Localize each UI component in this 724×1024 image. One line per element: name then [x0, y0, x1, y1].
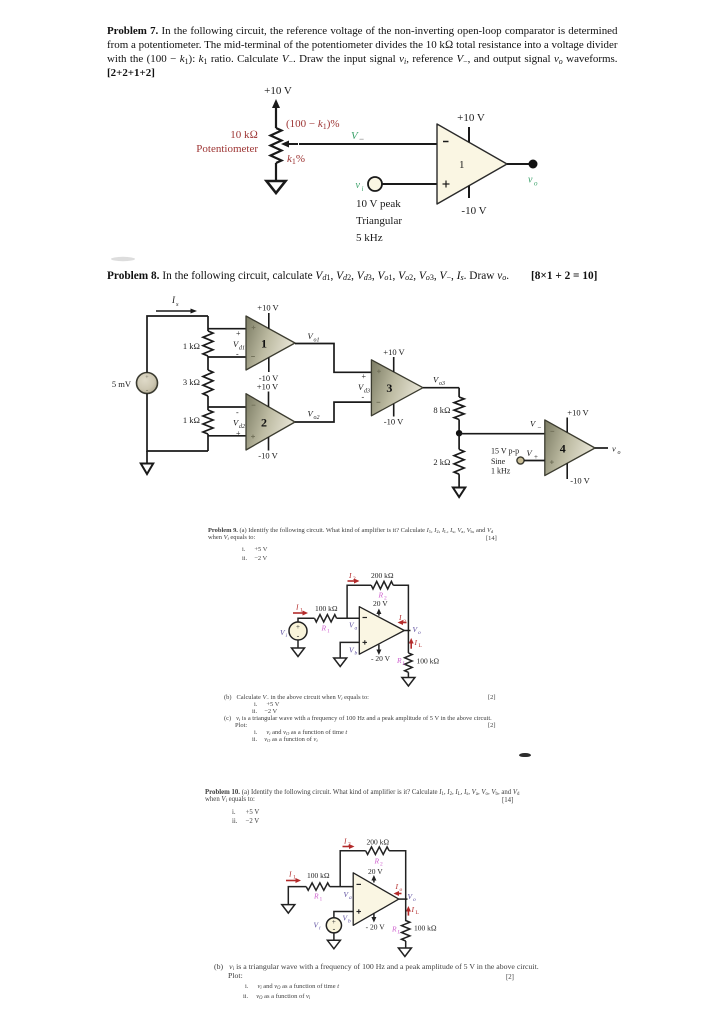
- svg-text:s: s: [176, 301, 179, 308]
- label Vi (p10): [314, 921, 322, 932]
- label RL (p10): [391, 925, 401, 936]
- svg-text:v: v: [612, 444, 616, 454]
- label RL (p9): [396, 656, 406, 667]
- svg-text:b: b: [348, 919, 351, 925]
- ground (potentiometer): [267, 181, 286, 193]
- label I1 (p10): [288, 870, 296, 881]
- U4 +10V pin: [566, 418, 568, 433]
- label Io (p9): [398, 613, 406, 624]
- U3 +10V pin: [393, 357, 395, 372]
- svg-text:L: L: [402, 661, 406, 667]
- label Va (p10): [344, 890, 353, 901]
- label Vo2: [308, 409, 320, 422]
- output terminal dot: [529, 160, 538, 169]
- svg-text:1: 1: [300, 608, 303, 614]
- op-amp input signs (p9): [363, 618, 368, 645]
- U3 outside + sign: [362, 372, 367, 381]
- svg-text:20 V: 20 V: [368, 867, 383, 876]
- svg-text:R: R: [391, 925, 397, 934]
- op-amp U2: [246, 394, 295, 450]
- wire +10V supply to potentiometer top: [272, 99, 280, 128]
- U4 +10 V label: [567, 408, 589, 418]
- problem 10 statement text (low-res scan): [205, 789, 525, 803]
- svg-text:+10 V: +10 V: [257, 303, 279, 313]
- svg-text:I: I: [288, 870, 292, 879]
- U2 outside - sign: [236, 408, 239, 417]
- feedback wire up (p10): [340, 851, 365, 887]
- label Vb (p10): [343, 914, 352, 925]
- svg-text:L: L: [419, 643, 423, 649]
- +10 V label (potentiometer supply): [264, 85, 292, 97]
- wire potentiometer bottom to ground: [275, 163, 277, 181]
- feedback wire down to output (p9): [393, 585, 408, 630]
- problem 8 statement text: [107, 270, 620, 282]
- source Vi (p10): [326, 918, 341, 934]
- wire + input to ground (p9): [340, 642, 359, 658]
- svg-text:100 kΩ: 100 kΩ: [417, 657, 440, 666]
- svg-text:V: V: [351, 130, 359, 142]
- svg-text:L: L: [397, 930, 401, 936]
- resistor 8k: [454, 397, 464, 420]
- label 8 kOhm: [433, 405, 450, 415]
- wire to ground (p8): [146, 451, 148, 464]
- wire wiper to op-amp inverting input (node V-): [299, 143, 437, 145]
- +supply arrow (p9): [376, 609, 381, 616]
- wire source to ground (p9): [297, 640, 299, 648]
- wire source top to resistor chain (top rail): [147, 316, 208, 373]
- label Vi (p9): [280, 628, 288, 639]
- feedback wire up (p9): [347, 585, 371, 618]
- label 200 kOhm (p9 R2): [371, 571, 394, 580]
- svg-text:10 kΩ: 10 kΩ: [230, 129, 258, 141]
- svg-text:+: +: [362, 372, 367, 381]
- svg-text:d1: d1: [239, 346, 245, 352]
- wire chain top segment: [207, 316, 209, 331]
- svg-text:+: +: [296, 623, 300, 631]
- resistor 1k (top): [203, 331, 213, 356]
- U2 designator 2: [261, 416, 267, 430]
- U4 designator 4: [560, 442, 566, 456]
- label 3 kOhm: [183, 377, 200, 387]
- label 100 kOhm (p10 RL): [414, 924, 437, 933]
- U4 V+ input label: [527, 448, 539, 461]
- wire output down to RL (p10): [405, 899, 407, 921]
- wire source to ground (p10): [333, 933, 335, 940]
- label Is: [171, 295, 179, 308]
- wire op-amp output (p10): [399, 898, 408, 900]
- U4 -10 V label: [570, 476, 590, 486]
- svg-text:- 20 V: - 20 V: [366, 922, 386, 931]
- current Io arrow (p10): [394, 891, 402, 896]
- svg-text:-10 V: -10 V: [461, 205, 486, 217]
- svg-text:I: I: [395, 882, 399, 891]
- current I1 arrow (p10): [286, 878, 301, 883]
- wire RL to ground (p10): [405, 941, 407, 948]
- U1 designator 1: [459, 159, 465, 171]
- svg-text:-: -: [333, 925, 336, 934]
- svg-text:3: 3: [386, 381, 392, 395]
- svg-text:I: I: [295, 603, 299, 612]
- U2 outside + sign: [236, 429, 241, 438]
- wire op-amp output (p9): [404, 630, 410, 632]
- svg-text:+: +: [236, 429, 241, 438]
- svg-text:o2: o2: [314, 415, 320, 421]
- U3 differential label Vd3: [358, 382, 370, 395]
- wire U3 output down to 8k: [458, 388, 460, 397]
- U1 +10 V label: [457, 112, 485, 124]
- svg-text:+10 V: +10 V: [457, 112, 485, 124]
- svg-text:I: I: [414, 638, 418, 647]
- problem 9 statement text (low-res scan): [208, 527, 508, 541]
- U3 +10 V label: [383, 347, 405, 357]
- scan artifact dashes above problem 8: [111, 257, 135, 261]
- current Io arrow (p9): [398, 620, 407, 625]
- label -20 V supply (p9): [371, 654, 391, 663]
- svg-text:k1%: k1%: [287, 153, 305, 166]
- svg-text:1: 1: [293, 875, 296, 881]
- U2 +10 V label: [257, 382, 279, 392]
- label 15 V p-p Sine 1 kHz: [491, 447, 519, 476]
- U1 designator 1: [261, 337, 267, 351]
- svg-text:o: o: [534, 180, 538, 188]
- source Vi (p9): [289, 622, 307, 641]
- svg-text:2: 2: [261, 416, 267, 430]
- svg-text:-: -: [236, 408, 239, 417]
- U2 input signs inside: [251, 405, 255, 438]
- potentiometer R 10k: [271, 128, 282, 163]
- wire sine source to U4 + input: [524, 460, 545, 462]
- label vo (U4 output): [612, 444, 621, 457]
- current I2 arrow (p9): [348, 579, 360, 584]
- U2 -10V pin: [268, 437, 270, 451]
- svg-text:+: +: [236, 329, 241, 338]
- U1 outside + sign: [236, 329, 241, 338]
- wire 8k to junction: [458, 420, 460, 434]
- svg-text:R: R: [374, 857, 380, 866]
- label Io (p10): [395, 882, 403, 893]
- current I1 arrow (p9): [293, 611, 308, 616]
- wire junction down to 2k: [458, 433, 460, 449]
- feedback wire down to output (p10): [389, 851, 406, 899]
- svg-text:o: o: [400, 887, 403, 893]
- wire U3 output: [423, 387, 459, 389]
- svg-text:d3: d3: [364, 389, 370, 395]
- U1 differential label Vd1: [233, 339, 245, 352]
- label 1 kOhm (bottom): [183, 415, 200, 425]
- wire tap to U2 - input: [208, 406, 246, 408]
- svg-text:R: R: [321, 624, 327, 633]
- label k1%: [287, 153, 305, 166]
- op-amp U1: [246, 316, 295, 370]
- svg-text:I: I: [343, 837, 347, 846]
- current Is arrow: [156, 309, 197, 314]
- resistor R1 100k (p10): [306, 883, 330, 890]
- resistor 3k: [203, 370, 213, 396]
- svg-text:+10 V: +10 V: [383, 347, 405, 357]
- problem 7 statement text: [107, 24, 618, 80]
- svg-text:a: a: [349, 895, 352, 901]
- U1 +10V supply pin: [468, 127, 470, 143]
- label R1 (p9): [321, 624, 331, 635]
- svg-text:I: I: [398, 613, 402, 622]
- U4 -10V pin: [566, 463, 568, 479]
- svg-text:5 kHz: 5 kHz: [356, 232, 383, 244]
- ground (p9 source): [292, 648, 305, 657]
- ground (p10 RL): [398, 948, 411, 957]
- svg-text:1: 1: [459, 159, 465, 171]
- label Va (p9): [349, 621, 358, 632]
- label I1 (p9): [295, 603, 303, 614]
- wire vi to op-amp non-inverting input: [382, 183, 437, 185]
- U3 -10V pin: [393, 404, 395, 417]
- svg-text:a: a: [355, 626, 358, 632]
- svg-text:I: I: [348, 571, 352, 580]
- wire R1 to inverting input (p9): [337, 617, 360, 619]
- sine source 15V p-p: [517, 457, 524, 464]
- wire source to R1 (p9): [298, 618, 315, 622]
- svg-text:i: i: [362, 185, 364, 193]
- svg-text:Triangular: Triangular: [356, 215, 402, 227]
- ground (voltage divider): [453, 488, 465, 498]
- svg-text:o1: o1: [314, 338, 320, 344]
- U2 differential label Vd2: [233, 418, 245, 431]
- svg-text:R: R: [313, 892, 319, 901]
- svg-text:15 V p-p: 15 V p-p: [491, 447, 519, 456]
- resistor RL 100k (p9): [405, 653, 413, 672]
- label 10 V peak Triangular 5 kHz: [356, 198, 402, 244]
- svg-text:V: V: [530, 419, 537, 429]
- wire U4 output: [595, 447, 608, 449]
- U2 -10 V label: [258, 451, 278, 461]
- label 100 kOhm (p10 R1): [307, 871, 330, 880]
- resistor 1k (bottom): [203, 410, 213, 434]
- svg-text:R: R: [396, 656, 402, 665]
- svg-text:-: -: [297, 632, 300, 641]
- svg-text:v: v: [528, 175, 533, 186]
- svg-text:2: 2: [353, 576, 356, 582]
- wire R1 to inverting input (p10): [330, 886, 354, 888]
- source Vs 5mV: [137, 373, 158, 395]
- svg-text:o: o: [418, 630, 421, 636]
- svg-text:I: I: [411, 905, 415, 914]
- op-amp U3: [371, 360, 423, 416]
- wire U1 output to U3 + input: [295, 344, 371, 373]
- svg-text:1: 1: [261, 337, 267, 351]
- U1 -10V pin: [268, 357, 270, 372]
- op-amp (p9): [359, 607, 404, 655]
- svg-text:5 mV: 5 mV: [112, 379, 132, 389]
- wire U2 output to U3 - input: [295, 402, 371, 422]
- wire U1 output: [507, 163, 531, 165]
- op-amp (p10): [353, 873, 399, 926]
- wire tap to U2 + input: [208, 435, 246, 437]
- svg-text:100 kΩ: 100 kΩ: [315, 604, 338, 613]
- label R1 (p10): [313, 892, 323, 903]
- svg-text:i: i: [319, 926, 321, 932]
- U3 -10 V label: [384, 417, 404, 427]
- svg-text:i: i: [286, 633, 288, 639]
- svg-text:1 kΩ: 1 kΩ: [183, 415, 200, 425]
- label Vo3: [433, 375, 445, 388]
- U1 outside - sign: [236, 350, 239, 359]
- svg-text:V: V: [527, 448, 534, 458]
- U1 input signs inside: [251, 326, 255, 357]
- resistor R2 200k (p10): [366, 847, 390, 855]
- label 1 kOhm (top): [183, 341, 200, 351]
- svg-text:200 kΩ: 200 kΩ: [367, 838, 390, 847]
- op-amp input signs (p10): [357, 884, 362, 913]
- op-amp U4: [545, 420, 595, 476]
- ground left (p10): [282, 905, 295, 914]
- svg-text:1 kHz: 1 kHz: [491, 467, 511, 476]
- wire tap to U1 + input: [208, 328, 246, 330]
- wire output down to RL (p9): [407, 631, 409, 653]
- svg-text:o: o: [403, 618, 406, 624]
- label R2 (p9): [378, 591, 388, 602]
- current IL arrow (p9): [409, 638, 414, 649]
- ground (p9 RL): [402, 678, 415, 687]
- svg-text:20 V: 20 V: [373, 599, 388, 608]
- label R2 (p10): [374, 857, 384, 868]
- current I2 arrow (p10): [343, 844, 355, 849]
- svg-text:v: v: [356, 180, 361, 191]
- +supply arrow (p10): [371, 875, 376, 883]
- U4 input signs inside: [550, 431, 554, 464]
- wire junction to U4 - input: [459, 433, 545, 435]
- svg-text:+10 V: +10 V: [257, 382, 279, 392]
- op-amp U1 (comparator): [437, 124, 507, 204]
- ground (p9 + input): [334, 658, 347, 667]
- U1 inverting input sign: [443, 141, 449, 143]
- U1 -10V supply pin: [468, 186, 470, 199]
- problem 8 marks: [531, 270, 597, 282]
- U1 -10 V label: [461, 205, 486, 217]
- svg-text:- 20 V: - 20 V: [371, 654, 391, 663]
- svg-text:100 kΩ: 100 kΩ: [307, 871, 330, 880]
- svg-text:3 kΩ: 3 kΩ: [183, 377, 200, 387]
- label vi: [356, 180, 364, 193]
- svg-text:1: 1: [320, 897, 323, 903]
- svg-text:o: o: [413, 897, 416, 903]
- label 100 kOhm (p9 R1): [315, 604, 338, 613]
- ground (p10 source): [327, 940, 340, 949]
- wire chain mid2: [207, 396, 209, 410]
- -supply arrow (p10): [371, 913, 376, 923]
- label 2 kOhm: [433, 457, 450, 467]
- U1 non-inverting input sign: [443, 181, 450, 188]
- svg-text:8 kΩ: 8 kΩ: [433, 405, 450, 415]
- svg-text:Sine: Sine: [491, 457, 506, 466]
- current IL arrow (p10): [406, 906, 411, 916]
- svg-text:-: -: [362, 393, 365, 402]
- U1 -10 V label: [259, 373, 279, 383]
- wire 2k to ground: [458, 474, 460, 487]
- U3 outside - sign: [362, 393, 365, 402]
- wire source bottom to bottom rail: [147, 394, 208, 452]
- label I2 (p9): [348, 571, 356, 582]
- label 20 V supply (p10): [368, 867, 383, 876]
- problem 9 part b/c text: [224, 694, 524, 743]
- wire tap to U1 - input: [208, 356, 246, 358]
- label IL (p9): [414, 638, 423, 649]
- svg-text:−: −: [359, 134, 364, 144]
- svg-text:b: b: [355, 651, 358, 657]
- wire ground to R1 (p10): [288, 887, 306, 905]
- label 10 kOhm Potentiometer: [196, 129, 258, 155]
- svg-text:200 kΩ: 200 kΩ: [371, 571, 394, 580]
- U1 +10 V label: [257, 303, 279, 313]
- source vi (10V peak triangular): [368, 177, 382, 191]
- resistor R1 100k (p9): [315, 615, 337, 622]
- svg-text:+10 V: +10 V: [264, 85, 292, 97]
- svg-text:4: 4: [560, 442, 566, 456]
- wire + input to source (p10): [334, 912, 353, 918]
- svg-text:1 kΩ: 1 kΩ: [183, 341, 200, 351]
- svg-text:−: −: [538, 424, 542, 432]
- wire chain bottom segment: [207, 434, 209, 451]
- svg-text:1: 1: [327, 629, 330, 635]
- svg-text:L: L: [416, 910, 420, 916]
- label vo: [528, 175, 538, 188]
- wire RL to ground (p9): [407, 672, 409, 677]
- resistor R2 200k (p9): [371, 581, 393, 589]
- wire chain mid1: [207, 356, 209, 370]
- svg-text:o: o: [618, 450, 621, 456]
- svg-text:Potentiometer: Potentiometer: [196, 143, 258, 155]
- svg-text:(100 − k1)%: (100 − k1)%: [286, 118, 340, 131]
- label I2 (p10): [343, 837, 351, 848]
- label 20 V supply (p9): [373, 599, 388, 608]
- resistor RL 100k (p10): [402, 921, 410, 942]
- svg-text:o3: o3: [439, 381, 445, 387]
- label 5 mV: [112, 379, 132, 389]
- U3 designator 3: [386, 381, 392, 395]
- resistor 2k: [454, 449, 464, 474]
- label 200 kOhm (p10 R2): [367, 838, 390, 847]
- label Vo (p9): [413, 625, 422, 636]
- label IL (p10): [411, 905, 420, 916]
- svg-text:2 kΩ: 2 kΩ: [433, 457, 450, 467]
- potentiometer wiper arrow: [281, 141, 298, 148]
- U2 +10V pin: [268, 392, 270, 407]
- problem 10 part b text: [214, 962, 554, 1002]
- svg-text:-10 V: -10 V: [258, 451, 278, 461]
- U1 +10V pin: [268, 313, 270, 329]
- svg-text:+10 V: +10 V: [567, 408, 589, 418]
- ground (p8 source): [141, 464, 153, 475]
- svg-text:10 V peak: 10 V peak: [356, 198, 401, 210]
- label Vo (p10): [408, 892, 417, 903]
- label (100-k1)%: [286, 118, 340, 131]
- U3 input signs inside: [377, 369, 381, 402]
- label 100 kOhm (p9 RL): [417, 657, 440, 666]
- svg-text:-10 V: -10 V: [570, 476, 590, 486]
- label Vb (p9): [349, 646, 358, 657]
- -supply arrow (p9): [376, 645, 381, 655]
- U4 V- input label: [530, 419, 542, 432]
- junction node dot: [456, 430, 462, 436]
- svg-text:-10 V: -10 V: [384, 417, 404, 427]
- node V- label: [351, 130, 364, 144]
- svg-text:100 kΩ: 100 kΩ: [414, 924, 437, 933]
- svg-text:2: 2: [348, 842, 351, 848]
- label -20 V supply (p10): [366, 922, 386, 931]
- scan artifact blob: [519, 753, 531, 758]
- label Vo1: [308, 331, 320, 344]
- svg-text:-: -: [236, 350, 239, 359]
